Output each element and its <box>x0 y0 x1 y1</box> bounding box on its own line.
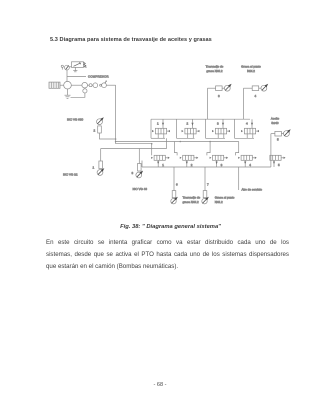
valve V3 row1 <box>206 119 230 138</box>
pump P5 <box>271 129 291 136</box>
outlet O7 body <box>203 191 207 198</box>
svg-text:5w40: 5w40 <box>271 121 279 125</box>
relief valve exhaust <box>73 67 77 71</box>
wire main drop <box>115 85 117 144</box>
svg-text:2: 2 <box>187 121 189 125</box>
cell wire <box>205 119 207 138</box>
svg-text:5: 5 <box>277 138 279 142</box>
node J3 <box>180 141 182 143</box>
svg-text:4: 4 <box>255 94 257 98</box>
svg-text:NGL2: NGL2 <box>247 69 255 73</box>
pump P2 body <box>98 126 102 133</box>
relief valve spring <box>84 62 87 67</box>
outlet O7 circle <box>202 197 209 204</box>
wire motor-compressor <box>60 84 64 86</box>
wire L_A manifold <box>116 141 239 143</box>
wire stub toward COMPRESOR label <box>67 76 86 78</box>
svg-text:ISO VG 46: ISO VG 46 <box>133 187 148 191</box>
wire bracket drop <box>166 138 168 148</box>
wire C1-aftercooler <box>71 84 82 86</box>
pump P1 riser <box>100 149 102 162</box>
svg-text:1: 1 <box>162 163 164 167</box>
gauge C5 <box>102 81 107 88</box>
relief valve gauge circle <box>65 65 70 70</box>
drain wire <box>71 93 85 97</box>
wire L_C manifold <box>101 148 167 150</box>
pump P4 <box>244 84 269 91</box>
cell wire <box>176 119 178 138</box>
svg-text:ISO VG 32: ISO VG 32 <box>63 172 78 176</box>
node J5 <box>151 143 153 145</box>
svg-text:grasa NGL2: grasa NGL2 <box>206 69 223 73</box>
pump P1 body <box>99 161 103 169</box>
node J1 <box>115 138 117 140</box>
pump P6 body <box>138 164 142 172</box>
valve W2 row2 <box>180 155 199 167</box>
wire P5 drop <box>270 134 272 167</box>
wire bottom bus <box>142 166 271 168</box>
compressor C1 <box>64 81 72 89</box>
valve W3 row2 <box>210 155 229 167</box>
ground (exhaust) <box>65 95 71 98</box>
relief valve body V8 <box>69 62 83 68</box>
wire v2 feed <box>175 142 178 156</box>
regulator R1 <box>93 83 98 88</box>
svg-text:6: 6 <box>176 182 178 186</box>
valve V1 row1 <box>151 119 170 138</box>
svg-text:ISO VG 680: ISO VG 680 <box>67 118 84 122</box>
wire P4 drop <box>243 88 245 119</box>
node J4 <box>209 141 211 143</box>
svg-text:5: 5 <box>278 163 280 167</box>
coupling dot <box>100 84 102 86</box>
compressor exhaust stem <box>67 89 69 95</box>
wire relief-to-compressor <box>66 70 68 82</box>
pump P6 circle <box>136 171 143 178</box>
outlet O6 body <box>172 191 176 198</box>
air service line <box>238 167 240 190</box>
pump P2 circle <box>97 117 104 124</box>
wire v4 feed <box>236 142 239 156</box>
drain gauge G1 <box>83 89 87 93</box>
svg-text:3: 3 <box>132 171 134 175</box>
svg-text:Grasa al punto: Grasa al punto <box>215 195 235 199</box>
svg-text:1: 1 <box>157 121 159 125</box>
wire L_B manifold <box>116 143 152 145</box>
svg-text:COMPRESOR: COMPRESOR <box>88 75 109 79</box>
pump P6 riser <box>138 149 140 164</box>
svg-text:4: 4 <box>249 163 251 167</box>
svg-text:3: 3 <box>217 121 219 125</box>
svg-text:1: 1 <box>93 165 95 169</box>
svg-text:Aire de servicio: Aire de servicio <box>242 188 263 192</box>
svg-text:3: 3 <box>221 163 223 167</box>
svg-text:2: 2 <box>191 163 193 167</box>
svg-text:Aceite: Aceite <box>271 117 280 121</box>
valve W4 row2 <box>238 155 257 167</box>
valve V4 row1 <box>235 119 259 138</box>
outlet O7 drop <box>204 167 206 191</box>
pump P3 <box>208 84 232 91</box>
svg-text:3: 3 <box>218 94 220 98</box>
relief valve pilot dot <box>61 65 63 69</box>
svg-text:Trasvasije de: Trasvasije de <box>183 195 201 199</box>
motor M1 <box>49 82 60 88</box>
svg-text:2: 2 <box>94 129 96 133</box>
valve W5 row2 <box>270 155 286 167</box>
wire top bus <box>151 118 250 120</box>
aftercooler A1 <box>82 82 88 88</box>
cell wire <box>234 119 236 138</box>
wire P2 to junction <box>100 133 116 139</box>
svg-text:4: 4 <box>246 121 248 125</box>
wire P3 drop <box>207 88 209 119</box>
svg-text:NGL2: NGL2 <box>215 200 223 204</box>
outlet O6 drop <box>173 167 175 191</box>
wire bus left end <box>141 161 143 168</box>
node J2 <box>115 141 117 143</box>
wire supply to drop <box>106 84 115 86</box>
outlet O6 circle <box>171 197 178 204</box>
pump P1 circle <box>97 168 104 175</box>
wire v3 feed <box>207 142 210 156</box>
cell wire <box>150 119 152 138</box>
valve V2 row1 <box>177 119 200 138</box>
wire <box>91 84 94 86</box>
separator S1 <box>89 84 92 87</box>
svg-text:7: 7 <box>207 182 209 186</box>
svg-text:Trasvasije de: Trasvasije de <box>206 65 224 69</box>
svg-text:Grasa al punto: Grasa al punto <box>241 65 261 69</box>
wire <box>88 84 90 86</box>
svg-text:grasa NGL2: grasa NGL2 <box>183 200 200 204</box>
wire v1 feed <box>151 144 153 156</box>
valve W1 row2 <box>151 155 170 167</box>
